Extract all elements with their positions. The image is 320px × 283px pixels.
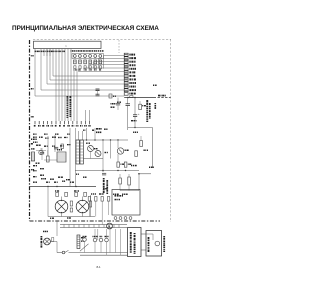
wire verticals center: [87, 128, 119, 172]
U1 pin numbers row: [35, 50, 104, 52]
switch SA12: [47, 150, 50, 162]
key contact row SB1-SB6: [74, 66, 102, 71]
plug vertical label: [148, 237, 150, 252]
resistor R11: [124, 162, 131, 167]
relay coil loop: [120, 174, 151, 191]
wire staircase into key ladder: [35, 49, 124, 97]
labels center: [111, 102, 122, 108]
HV transformer box T2: [112, 190, 140, 216]
fuse label marks: [155, 103, 157, 109]
wires to filter: [141, 234, 146, 250]
relay contact K1.1: [131, 132, 154, 169]
relay K1: [57, 149, 66, 162]
chassis frame right (dotted): [170, 39, 172, 222]
diode VD5: [119, 174, 122, 191]
oven lamp EL1: [44, 238, 51, 245]
wire hbus3: [75, 170, 140, 175]
thermal switch SK1: [39, 148, 43, 155]
varistor RU1: [31, 152, 34, 161]
wire stubs U1 left pins: [44, 49, 50, 57]
labels left column: [31, 139, 44, 176]
labels psu: [91, 188, 108, 195]
key ladder bottom cells: [124, 93, 136, 98]
wire mid join: [128, 128, 153, 169]
terminal row X1: [34, 121, 83, 127]
capacitor C7: [54, 147, 58, 149]
frame zone markers: [31, 55, 34, 145]
resistor R10: [117, 162, 124, 167]
mains transformer label (vertical): [146, 100, 150, 122]
interlock connector XS1: [77, 235, 85, 249]
chassis frame bottom (dash-dot): [30, 220, 161, 222]
resonator ZQ1: [109, 94, 116, 98]
capacitor C5: [116, 98, 120, 111]
door switch SQ3: [93, 229, 98, 253]
capacitor C2 polarized: [131, 98, 140, 129]
capacitor C3: [96, 89, 100, 95]
capacitor C6: [40, 148, 44, 160]
door switch SQ4: [99, 236, 103, 253]
diode bridge VD7: [55, 197, 68, 217]
wire bus keypad columns down: [74, 69, 77, 121]
page number: [97, 265, 101, 269]
node mark right of ladder: [153, 85, 157, 87]
left zone scatter labels: [33, 137, 71, 147]
cord vertical label: [163, 236, 165, 252]
wire hbus4: [30, 186, 97, 187]
labels mid low: [33, 165, 74, 183]
labels under fan2: [83, 128, 108, 133]
transistor VT1: [86, 143, 94, 159]
labels second row: [33, 134, 70, 135]
fan motor M1: [107, 223, 113, 229]
wire hbus2: [83, 152, 107, 159]
key ladder labels: [129, 54, 136, 92]
lamp label vertical: [41, 231, 48, 248]
key resistor row R1-R6: [74, 60, 102, 64]
transistor VT3: [117, 148, 128, 154]
wire dotted drop to ladder: [118, 40, 120, 53]
psu bottom wire: [48, 187, 95, 219]
capacitor C14: [76, 173, 106, 178]
psu diode row: [55, 190, 86, 196]
diode bridge VD8: [76, 197, 89, 217]
door switch SQ2: [83, 236, 87, 253]
terminal row X1 extension: [84, 110, 91, 127]
diode VD4: [61, 144, 63, 149]
buzzer label (vertical): [67, 96, 72, 118]
lamp wires: [50, 221, 57, 253]
transformer terminals: [114, 217, 132, 220]
filter vertical labels: [130, 232, 136, 254]
psu small parts row2: [88, 197, 110, 225]
mains filter box Z1: [128, 228, 142, 257]
title text: [12, 25, 159, 32]
door switch SQ1: [57, 250, 69, 254]
key switch ladder SA1-SA11: [124, 53, 128, 91]
power plug box XP1: [146, 231, 162, 257]
display dashed box A1: [72, 54, 104, 59]
psu mid parts: [70, 195, 92, 217]
psu vertical labels: [103, 178, 108, 194]
connector band X2: [60, 225, 127, 228]
transistor VT2: [94, 148, 101, 157]
band drops: [110, 228, 121, 256]
svg-text:8-1: 8-1: [97, 265, 101, 269]
door switch SQ5: [105, 229, 109, 255]
plug inner: [146, 234, 160, 246]
svg-text:ПРИНЦИПИАЛЬНАЯ ЭЛЕКТРИЧЕСКАЯ С: ПРИНЦИПИАЛЬНАЯ ЭЛЕКТРИЧЕСКАЯ СХЕМА: [12, 25, 159, 32]
switch lever: [80, 244, 89, 251]
capacitor C4: [96, 94, 100, 96]
resistor R7: [139, 101, 146, 110]
controller IC U1: [34, 41, 102, 48]
chassis frame top (dotted): [33, 38, 171, 40]
diode VD6: [128, 174, 131, 191]
wire bus U1 to terminal row: [56, 49, 71, 122]
IC DD2 driver: [76, 140, 83, 164]
wire hbus1: [76, 139, 128, 140]
bottom wire pair: [69, 253, 128, 256]
power rail wire: [124, 95, 170, 99]
chassis frame left (dash-dot): [29, 40, 31, 221]
capacitor C1: [126, 98, 131, 131]
labels loop: [113, 194, 128, 196]
display segment lamps HL1-HL6: [73, 55, 101, 58]
wire drops below terminal row: [55, 128, 83, 187]
left zone wires: [36, 136, 57, 160]
